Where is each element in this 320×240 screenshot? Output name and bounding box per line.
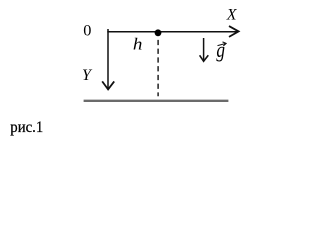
ground line [84, 100, 229, 102]
gravity label g [216, 38, 225, 62]
X axis arrowhead [229, 26, 239, 37]
gravity vector accent arrow [218, 42, 227, 46]
svg-text:рис.1: рис.1 [10, 119, 43, 136]
svg-text:Y: Y [82, 67, 93, 84]
svg-text:g: g [216, 38, 225, 62]
Y axis arrowhead [102, 81, 114, 89]
gravity arrow [203, 38, 205, 60]
X axis wire [107, 31, 237, 33]
point mass dot [155, 29, 162, 36]
svg-text:0: 0 [83, 21, 91, 40]
svg-text:X: X [226, 7, 238, 24]
svg-text:h: h [133, 35, 143, 54]
gravity arrowhead [200, 55, 209, 61]
dashed height line [157, 40, 159, 96]
Y axis wire [107, 29, 109, 89]
